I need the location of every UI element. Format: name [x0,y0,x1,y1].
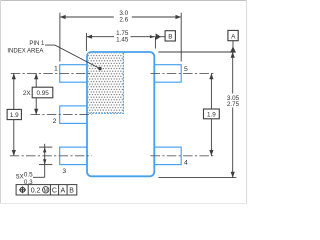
feature control frame [16,185,77,195]
pin 1 index area dotted boundary [88,53,123,113]
pin 2 lead [60,106,88,124]
centerline pin 4 [151,155,215,157]
page frame [0,0,247,204]
dimension 1.9 left pin span [13,73,15,109]
svg-text:3: 3 [62,168,66,175]
dimension 1.75/1.45 body width [86,33,164,51]
dimension 5X 0.5/0.3 lead width [33,144,52,178]
svg-text:2.6: 2.6 [119,16,128,23]
datum B flag [165,31,175,41]
pin 1 lead [60,65,88,83]
pin 5 lead [154,65,181,83]
svg-text:1.9: 1.9 [10,112,19,119]
svg-text:2.75: 2.75 [227,101,240,108]
svg-text:A: A [231,33,236,40]
dimension 2X 0.95 pin pitch [35,73,37,87]
svg-text:B: B [168,34,172,41]
true position symbol [19,186,26,193]
dimension 3.05/2.75 body length [232,52,234,94]
svg-text:2X: 2X [23,90,32,97]
extension line bottom (body bottom) [159,177,237,179]
package body U1 [87,52,154,176]
svg-text:1.45: 1.45 [116,36,129,43]
centerline pin 2 [31,114,92,116]
pin 1 index area hatch [88,53,123,113]
svg-text:M: M [43,188,48,194]
pin 4 lead [154,147,181,165]
svg-text:0.95: 0.95 [36,90,49,97]
dimension 3.0/2.6 overall width [60,13,181,62]
centerline pin 5 [151,72,215,74]
svg-text:4: 4 [184,159,188,166]
svg-text:A: A [60,188,65,195]
svg-text:PIN 1: PIN 1 [29,41,45,47]
svg-text:5: 5 [184,66,188,73]
svg-text:B: B [69,188,74,195]
svg-text:1: 1 [54,65,58,72]
svg-text:2: 2 [53,118,57,125]
svg-text:0.5: 0.5 [24,171,33,178]
centerline pin 1 [11,72,92,74]
svg-text:C: C [52,188,57,195]
dimension 1.9 right pin pitch [210,73,212,109]
datum A flag [228,30,238,40]
extension line top (body top to datum A) [159,51,234,53]
centerline pin 3 [10,155,92,157]
pin 1 leader line [45,45,100,69]
svg-text:INDEX AREA: INDEX AREA [7,48,43,54]
svg-text:0.2: 0.2 [31,188,41,195]
svg-text:1.9: 1.9 [207,111,216,118]
pin 3 lead [60,147,88,165]
